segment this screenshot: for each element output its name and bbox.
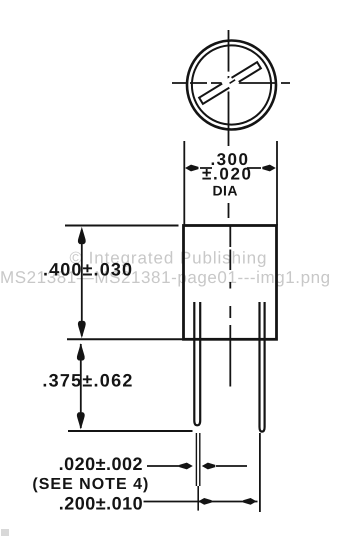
svg-text:(SEE NOTE 4): (SEE NOTE 4) <box>32 476 149 493</box>
svg-text:.375±.062: .375±.062 <box>42 370 133 390</box>
svg-text:DIA: DIA <box>213 182 238 198</box>
svg-text:.020±.002: .020±.002 <box>59 454 143 474</box>
svg-text:.400±.030: .400±.030 <box>43 259 133 279</box>
svg-text:.200±.010: .200±.010 <box>59 493 143 513</box>
svg-text:±.020: ±.020 <box>202 164 253 183</box>
